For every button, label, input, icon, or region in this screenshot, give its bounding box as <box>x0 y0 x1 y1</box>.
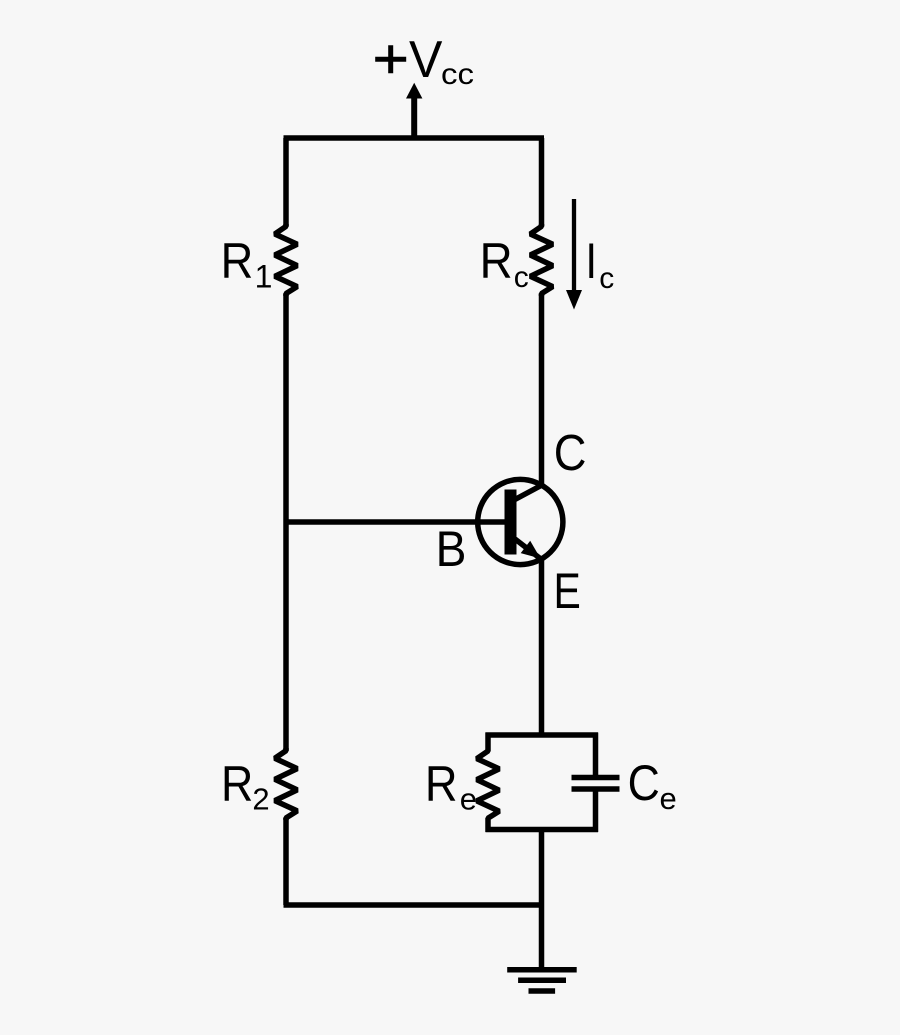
wire right branch top <box>539 138 545 226</box>
svg-text:R: R <box>425 756 458 812</box>
svg-text:R: R <box>221 233 254 289</box>
svg-text:cc: cc <box>441 58 474 91</box>
svg-text:2: 2 <box>252 782 269 817</box>
Vcc arrow stem <box>411 98 417 139</box>
transistor Q1 circle <box>478 479 563 564</box>
current arrow Ic stem <box>572 199 576 293</box>
Vcc arrowhead <box>406 83 422 99</box>
wire ground lead <box>539 905 545 970</box>
transistor Q1 collector diagonal <box>514 485 543 501</box>
wire parallel bottom bar <box>486 827 599 833</box>
wire left branch upper <box>283 138 289 226</box>
wire collector lead <box>539 294 545 487</box>
resistor R1 <box>275 224 297 296</box>
label +Vcc plus sign <box>375 45 406 73</box>
wire left branch middle <box>283 294 289 751</box>
svg-text:C: C <box>554 424 587 481</box>
svg-text:E: E <box>554 563 581 619</box>
svg-text:e: e <box>660 781 677 816</box>
svg-text:B: B <box>436 521 467 577</box>
svg-text:c: c <box>599 262 614 295</box>
wire emitter lead <box>539 558 545 735</box>
wire emitter to bottom rail <box>539 830 545 906</box>
wire bottom rail <box>284 902 545 908</box>
transistor Q1 emitter arrowhead <box>521 541 541 559</box>
wire top rail <box>284 135 545 141</box>
svg-text:I: I <box>586 233 598 289</box>
svg-text:1: 1 <box>255 259 273 295</box>
transistor Q1 emitter diagonal <box>515 539 542 560</box>
wire parallel top bar <box>486 732 599 738</box>
svg-text:V: V <box>409 31 443 89</box>
capacitor Ce <box>572 733 620 833</box>
svg-text:R: R <box>480 233 513 289</box>
resistor Rc <box>530 224 552 296</box>
svg-text:e: e <box>460 782 477 817</box>
wire base lead <box>286 519 506 525</box>
wire left branch lower <box>283 818 289 905</box>
svg-text:R: R <box>221 756 253 812</box>
svg-text:c: c <box>514 261 529 294</box>
resistor Re <box>477 733 499 833</box>
resistor R2 <box>275 748 297 820</box>
svg-text:C: C <box>628 755 660 811</box>
ground symbol <box>507 970 577 991</box>
current arrow Ic arrowhead <box>566 290 582 310</box>
transistor Q1 base bar <box>505 490 517 555</box>
